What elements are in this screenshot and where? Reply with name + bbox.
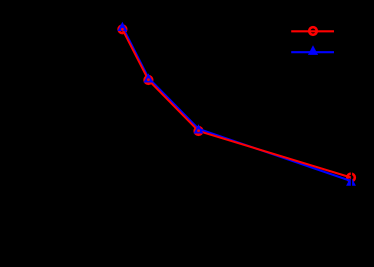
- legend red circle marker: [309, 27, 317, 35]
- red marker point 1 (open circle): [119, 26, 127, 34]
- blue series line: [122, 27, 351, 182]
- right axis spine (black, over markers): [351, 160, 352, 200]
- red marker point 3 (open circle): [195, 127, 203, 135]
- red line peek at point 2: [147, 78, 150, 81]
- red line peek at point 4: [349, 176, 352, 179]
- blue marker point 2 (triangle): [144, 73, 154, 82]
- blue marker point 4 (triangle): [346, 176, 356, 185]
- red series line: [122, 29, 351, 177]
- legend blue triangle marker: [308, 45, 318, 55]
- red line peek at point 1: [121, 28, 124, 31]
- legend blue line: [291, 51, 334, 53]
- red marker point 2 (open circle): [145, 76, 153, 84]
- blue marker point 3 (triangle): [194, 124, 204, 133]
- red line peek at point 3: [197, 129, 200, 132]
- blue marker point 1 (triangle): [118, 22, 128, 31]
- red marker point 4 (open circle): [347, 174, 355, 182]
- legend red line: [291, 30, 334, 32]
